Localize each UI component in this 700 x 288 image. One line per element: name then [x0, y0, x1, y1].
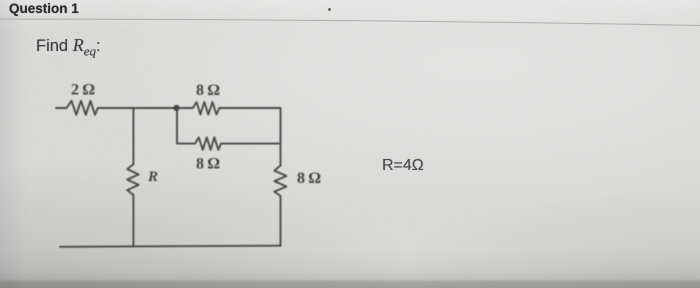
svg-text:R: R — [147, 169, 158, 185]
wire top-left stub — [56, 107, 67, 109]
svg-text:2 Ω: 2 Ω — [71, 82, 95, 99]
wire top middle — [98, 107, 177, 109]
resistor 2 ohm zigzag — [67, 101, 98, 115]
horizontal rule — [0, 0, 700, 30]
resistor 8 ohm top zigzag — [193, 102, 220, 115]
svg-text:8 Ω: 8 Ω — [196, 156, 220, 173]
resistor R vertical zigzag — [127, 164, 138, 195]
wire left vertical upper — [132, 108, 134, 164]
svg-text:8 Ω: 8 Ω — [196, 82, 220, 99]
wire 8 ohm top to right corner, down right side — [219, 108, 280, 144]
wire right vertical lower — [280, 196, 282, 246]
wire junction drop and to mid resistor — [177, 108, 195, 144]
wire middle to right vertical — [221, 143, 281, 145]
wire bottom — [60, 246, 281, 247]
wire junction to 8 ohm top — [177, 107, 193, 109]
node junction dot — [173, 105, 179, 111]
answer text R=4 ohm — [382, 157, 424, 175]
svg-text:8 Ω: 8 Ω — [297, 170, 321, 187]
wire right vertical upper — [280, 144, 282, 166]
header Question 1 — [9, 1, 79, 16]
resistor 8 ohm right vertical zigzag — [274, 166, 286, 197]
prompt Find Req — [36, 35, 101, 59]
wire left vertical lower — [132, 195, 134, 247]
resistor 8 ohm middle zigzag — [195, 137, 221, 149]
dust speck — [328, 8, 331, 11]
